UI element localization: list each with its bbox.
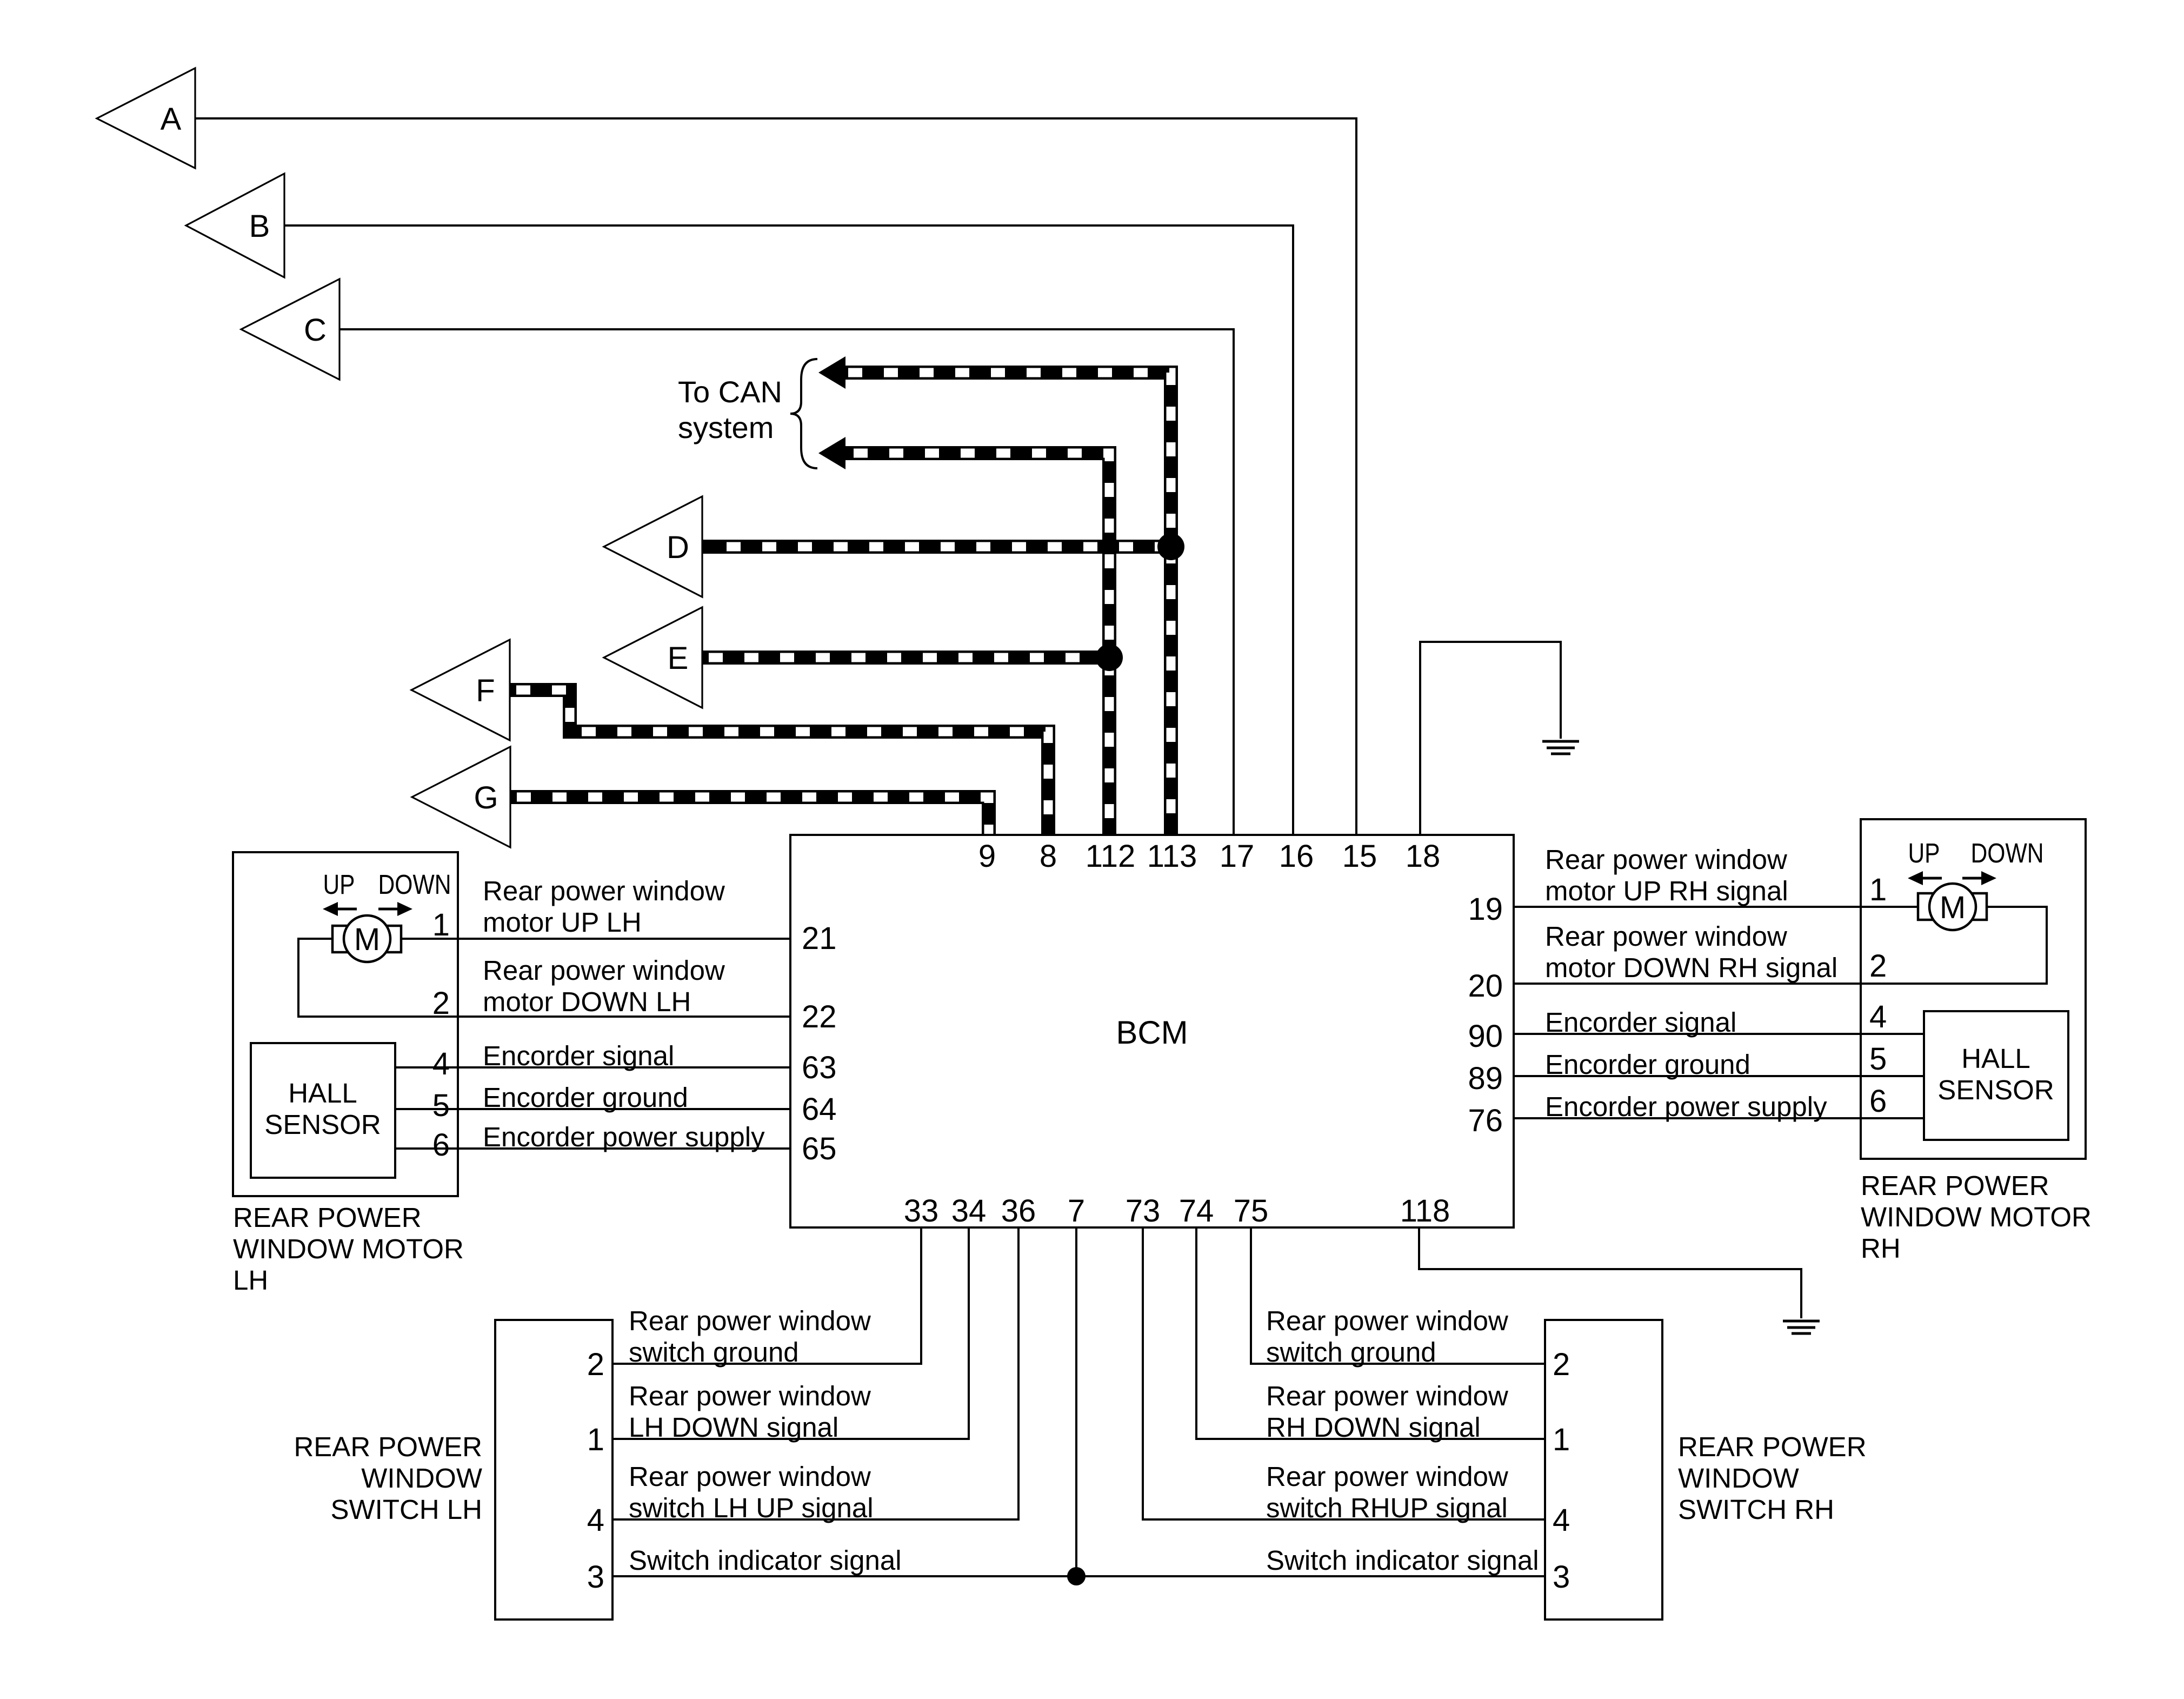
UP arrow LH [323, 902, 357, 916]
svg-text:63: 63 [802, 1050, 837, 1085]
wire hall LH pin 5 to BCM 64 [395, 1108, 790, 1110]
svg-text:4: 4 [432, 1046, 450, 1081]
wire label: Rear power window motor DOWN LH [483, 955, 725, 1017]
svg-text:SENSOR: SENSOR [264, 1109, 381, 1140]
BCM right pin labels [1468, 892, 1503, 1138]
svg-text:switch LH UP signal: switch LH UP signal [629, 1492, 874, 1523]
wire label: Rear power window switch RHUP signal [1266, 1461, 1508, 1523]
svg-text:75: 75 [1234, 1193, 1269, 1229]
svg-text:switch RHUP signal: switch RHUP signal [1266, 1492, 1508, 1523]
svg-text:DOWN: DOWN [378, 869, 451, 900]
wire BCM 90 to hall RH pin 4 [1514, 1033, 1924, 1035]
svg-text:SWITCH LH: SWITCH LH [331, 1494, 483, 1525]
svg-text:WINDOW MOTOR: WINDOW MOTOR [1861, 1202, 2092, 1232]
svg-text:switch ground: switch ground [629, 1337, 799, 1368]
svg-text:Encorder ground: Encorder ground [483, 1082, 688, 1113]
svg-text:118: 118 [1400, 1193, 1450, 1229]
rear power window switch LH box [495, 1320, 612, 1620]
motor M2 (rear power window motor RH) [1918, 884, 1987, 930]
svg-text:2: 2 [1553, 1347, 1570, 1382]
wire BCM pin 7 to indicator wire [1075, 1227, 1077, 1576]
svg-text:M: M [354, 922, 380, 957]
svg-text:73: 73 [1126, 1193, 1161, 1229]
BCM box [790, 835, 1514, 1227]
svg-text:1: 1 [1869, 872, 1887, 907]
hall sensor RH box [1924, 1011, 2068, 1140]
svg-text:2: 2 [432, 986, 450, 1021]
svg-text:65: 65 [802, 1131, 837, 1166]
BCM top pin labels [978, 839, 1440, 874]
svg-text:112: 112 [1086, 839, 1135, 874]
wire BCM pin 74 to switch RH pin 1 [1196, 1227, 1545, 1439]
svg-text:2: 2 [587, 1347, 604, 1382]
label REAR POWER WINDOW MOTOR LH [233, 1202, 464, 1296]
svg-text:5: 5 [432, 1088, 450, 1123]
svg-text:WINDOW: WINDOW [1678, 1463, 1799, 1494]
hall sensor LH box [251, 1043, 395, 1178]
svg-text:4: 4 [1869, 999, 1887, 1034]
wire from B to BCM pin 16 [284, 225, 1293, 835]
wire BCM pin 34 to switch LH pin 1 [612, 1227, 969, 1439]
svg-text:D: D [667, 530, 689, 565]
svg-text:Rear power window: Rear power window [1545, 844, 1787, 875]
svg-text:REAR POWER: REAR POWER [294, 1431, 482, 1462]
curly brace [790, 359, 817, 468]
wire from A to BCM pin 15 [195, 118, 1356, 835]
svg-text:90: 90 [1468, 1019, 1503, 1054]
wire label: Rear power window switch LH UP signal [629, 1461, 874, 1523]
label REAR POWER WINDOW SWITCH LH [294, 1431, 482, 1525]
svg-text:Rear power window: Rear power window [483, 955, 725, 986]
svg-text:Rear power window: Rear power window [629, 1381, 871, 1411]
connector triangle A [97, 68, 195, 168]
svg-text:1: 1 [432, 907, 450, 943]
svg-text:36: 36 [1001, 1193, 1036, 1229]
wire BCM pin 21 to motor LH pin 1 [401, 938, 790, 940]
svg-text:LH: LH [233, 1265, 268, 1296]
svg-text:34: 34 [951, 1193, 987, 1229]
svg-text:4: 4 [587, 1503, 604, 1538]
svg-text:Encorder signal: Encorder signal [483, 1040, 674, 1071]
rear power window switch RH box [1545, 1320, 1662, 1620]
wire label: Rear power window switch ground (LH) [629, 1305, 871, 1368]
junction dot D/CAN1 [1157, 533, 1184, 560]
svg-text:3: 3 [1553, 1559, 1570, 1595]
svg-text:motor DOWN RH signal: motor DOWN RH signal [1545, 952, 1837, 983]
svg-text:RH DOWN signal: RH DOWN signal [1266, 1412, 1481, 1443]
wire label: Rear power window RH DOWN signal [1266, 1381, 1508, 1443]
svg-text:motor DOWN LH: motor DOWN LH [483, 986, 691, 1017]
svg-text:Rear power window: Rear power window [483, 875, 725, 906]
wire from C to BCM pin 17 [339, 329, 1234, 835]
wire label: Rear power window motor DOWN RH signal [1545, 921, 1837, 983]
svg-text:Switch indicator signal: Switch indicator signal [1266, 1545, 1539, 1576]
striped wire D to junction on CAN1 [702, 540, 1171, 554]
wire BCM pin 19 to motor RH pin 1 [1514, 906, 1918, 908]
svg-text:system: system [678, 410, 774, 444]
ground G2 [1783, 1321, 1820, 1333]
svg-text:To CAN: To CAN [678, 375, 782, 409]
svg-text:15: 15 [1342, 839, 1377, 874]
svg-text:22: 22 [802, 999, 837, 1034]
wire BCM pin 33 to switch LH pin 2 [612, 1227, 921, 1364]
svg-text:20: 20 [1468, 968, 1503, 1004]
svg-text:UP: UP [323, 869, 355, 900]
wire BCM pin 118 to ground G2 [1419, 1227, 1801, 1318]
label To CAN system [678, 375, 782, 444]
svg-text:16: 16 [1279, 839, 1314, 874]
svg-text:89: 89 [1468, 1061, 1503, 1096]
ground G1 [1542, 741, 1579, 754]
svg-text:9: 9 [978, 839, 996, 874]
svg-text:DOWN: DOWN [1971, 838, 2044, 868]
svg-text:2: 2 [1869, 948, 1887, 984]
connector triangle C [241, 279, 339, 380]
svg-text:E: E [668, 641, 689, 676]
svg-text:33: 33 [904, 1193, 939, 1229]
svg-text:3: 3 [587, 1559, 604, 1595]
svg-text:WINDOW MOTOR: WINDOW MOTOR [233, 1233, 464, 1264]
svg-text:BCM: BCM [1116, 1014, 1188, 1051]
wire BCM pin 36 to switch LH pin 4 [612, 1227, 1018, 1519]
svg-text:HALL: HALL [1961, 1043, 2030, 1074]
striped wire F to BCM pin 8 [510, 690, 1048, 835]
svg-text:Encorder power supply: Encorder power supply [483, 1121, 765, 1152]
wire label: Rear power window motor UP LH [483, 875, 725, 938]
svg-text:LH DOWN signal: LH DOWN signal [629, 1412, 838, 1443]
svg-text:F: F [476, 673, 495, 708]
svg-text:HALL: HALL [288, 1078, 357, 1109]
svg-text:motor UP LH: motor UP LH [483, 907, 642, 938]
svg-text:Rear power window: Rear power window [629, 1461, 871, 1492]
svg-text:19: 19 [1468, 892, 1503, 927]
wire motor LH loop to BCM pin 22 [298, 939, 790, 1017]
svg-text:REAR POWER: REAR POWER [1678, 1431, 1867, 1462]
UP arrow RH [1908, 871, 1942, 885]
svg-text:21: 21 [802, 921, 837, 956]
svg-text:64: 64 [802, 1092, 837, 1127]
wire BCM pin 73 to switch RH pin 4 [1143, 1227, 1545, 1519]
svg-text:Rear power window: Rear power window [629, 1305, 871, 1336]
wire label: Rear power window switch ground (RH) [1266, 1305, 1508, 1368]
label REAR POWER WINDOW SWITCH RH [1678, 1431, 1867, 1525]
svg-text:C: C [304, 313, 327, 348]
svg-text:18: 18 [1406, 839, 1441, 874]
motor M1 (rear power window motor LH) [332, 915, 401, 962]
wire hall LH pin 6 to BCM 65 [395, 1147, 790, 1150]
svg-text:6: 6 [432, 1127, 450, 1163]
svg-text:Switch indicator signal: Switch indicator signal [629, 1545, 902, 1576]
junction dot pin 7 [1067, 1567, 1086, 1585]
connector triangle E [604, 607, 702, 708]
DOWN arrow LH [378, 902, 412, 916]
junction dot E/CAN2 [1096, 644, 1123, 671]
wire BCM pin 18 to ground G1 [1420, 642, 1561, 835]
svg-text:8: 8 [1040, 839, 1057, 874]
svg-text:Encorder ground: Encorder ground [1545, 1049, 1750, 1080]
svg-text:M: M [1940, 890, 1966, 925]
wire label: Rear power window LH DOWN signal [629, 1381, 871, 1443]
svg-text:5: 5 [1869, 1041, 1887, 1077]
connector triangle B [186, 174, 284, 277]
svg-text:6: 6 [1869, 1084, 1887, 1119]
connector triangle D [604, 496, 702, 597]
label REAR POWER WINDOW MOTOR RH [1861, 1170, 2092, 1264]
svg-text:WINDOW: WINDOW [361, 1463, 482, 1494]
CAN wire 1 (striped) to BCM pin 113 [818, 356, 1171, 835]
svg-text:G: G [474, 780, 498, 815]
wire motor RH loop to BCM pin 20 [1514, 907, 2047, 984]
striped wire E to junction on CAN2 [702, 651, 1109, 665]
svg-text:UP: UP [1908, 838, 1940, 868]
wire hall LH pin 4 to BCM 63 [395, 1066, 790, 1068]
BCM left pin labels [802, 921, 837, 1166]
svg-text:1: 1 [587, 1422, 604, 1457]
svg-text:17: 17 [1220, 839, 1255, 874]
wire BCM pin 75 to switch RH pin 2 [1251, 1227, 1545, 1364]
svg-text:Rear power window: Rear power window [1266, 1305, 1508, 1336]
svg-text:REAR POWER: REAR POWER [233, 1202, 422, 1233]
svg-text:4: 4 [1553, 1503, 1570, 1538]
DOWN arrow RH [1962, 871, 1996, 885]
rear power window motor LH outer box [233, 852, 458, 1196]
svg-text:Rear power window: Rear power window [1545, 921, 1787, 952]
svg-text:Rear power window: Rear power window [1266, 1381, 1508, 1411]
svg-text:B: B [249, 209, 270, 244]
wire label: Rear power window motor UP RH signal [1545, 844, 1788, 906]
rear power window motor RH outer box [1861, 819, 2086, 1159]
wire BCM 89 to hall RH pin 5 [1514, 1075, 1924, 1077]
connector triangle F [411, 640, 510, 740]
CAN wire 2 (striped) to BCM pin 112 [818, 437, 1109, 835]
connector triangle G [412, 747, 510, 847]
svg-text:1: 1 [1553, 1422, 1570, 1457]
svg-text:Rear power window: Rear power window [1266, 1461, 1508, 1492]
BCM bottom pin labels [904, 1193, 1450, 1229]
svg-text:76: 76 [1468, 1103, 1503, 1138]
svg-text:Encorder signal: Encorder signal [1545, 1007, 1736, 1038]
svg-text:74: 74 [1179, 1193, 1214, 1229]
svg-text:Encorder power supply: Encorder power supply [1545, 1091, 1827, 1122]
svg-text:RH: RH [1861, 1233, 1901, 1264]
svg-text:switch ground: switch ground [1266, 1337, 1436, 1368]
striped wire G to BCM pin 9 [510, 797, 989, 835]
wire BCM 76 to hall RH pin 6 [1514, 1117, 1924, 1119]
svg-text:7: 7 [1068, 1193, 1085, 1229]
svg-text:113: 113 [1147, 839, 1197, 874]
svg-text:A: A [161, 102, 182, 137]
wire switch indicator signal (LH to RH) [612, 1575, 1545, 1577]
svg-text:REAR POWER: REAR POWER [1861, 1170, 2049, 1201]
svg-text:motor UP RH signal: motor UP RH signal [1545, 875, 1788, 906]
svg-text:SENSOR: SENSOR [1937, 1074, 2054, 1105]
svg-text:SWITCH RH: SWITCH RH [1678, 1494, 1834, 1525]
